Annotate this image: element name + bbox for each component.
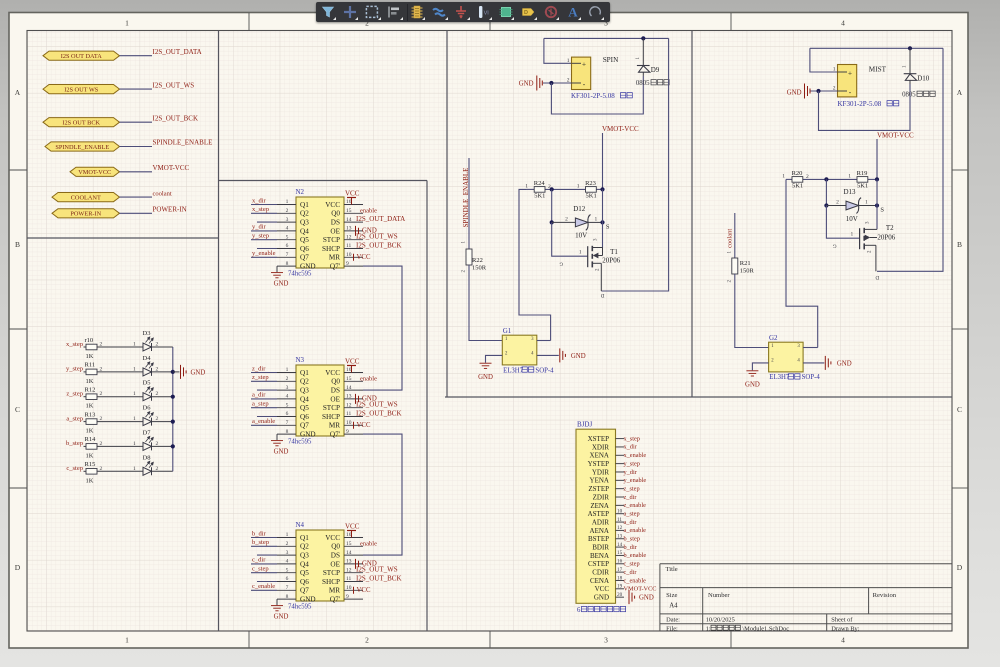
svg-text:2: 2 (836, 200, 839, 206)
svg-text:CSTEP: CSTEP (588, 560, 609, 568)
svg-text:SHCP: SHCP (322, 245, 340, 253)
svg-text:YSTEP: YSTEP (588, 460, 610, 468)
svg-text:R21: R21 (740, 260, 751, 267)
svg-text:EL3H7: EL3H7 (769, 374, 790, 381)
svg-text:1K: 1K (86, 452, 94, 459)
wire D7 to gnd bus (152, 445, 173, 447)
resistor R15 1K (84, 470, 87, 472)
svg-text:1: 1 (525, 183, 528, 189)
wire R15 to D8 (97, 470, 143, 472)
svg-text:1: 1 (865, 200, 868, 206)
svg-text:2: 2 (286, 376, 289, 382)
svg-text:A: A (15, 88, 21, 97)
svg-text:c_step: c_step (624, 561, 640, 568)
svg-text:D: D (15, 563, 21, 572)
wire y_enable to N2 (251, 256, 277, 258)
svg-text:VCC: VCC (325, 369, 340, 377)
svg-text:I2S_OUT_BCK: I2S_OUT_BCK (356, 410, 402, 418)
svg-text:15: 15 (346, 376, 352, 382)
port COOLANT (52, 193, 120, 202)
svg-text:D13: D13 (844, 188, 857, 196)
svg-text:SHCP: SHCP (322, 578, 340, 586)
svg-text:z_step: z_step (252, 374, 269, 381)
wire a_enable to N3 (251, 424, 277, 426)
svg-text:12: 12 (346, 234, 352, 240)
svg-text:MR: MR (329, 422, 340, 430)
svg-text:G: G (833, 243, 837, 248)
svg-text:74hc595: 74hc595 (288, 604, 312, 611)
svg-text:GND: GND (300, 263, 316, 271)
resistor r10 1K (84, 346, 87, 348)
svg-text:Q7: Q7 (300, 254, 309, 262)
svg-text:VCC: VCC (357, 254, 371, 261)
vertical divider x=692 (691, 31, 693, 398)
svg-text:16: 16 (346, 199, 352, 205)
svg-text:GND: GND (300, 596, 316, 604)
transistor T2 20P06 P-MOSFET (859, 228, 861, 249)
zone ticks bottom band (248, 631, 250, 648)
svg-text:GND: GND (745, 381, 760, 388)
svg-text:GND: GND (571, 353, 586, 360)
vertical divider x=447 (446, 31, 448, 398)
svg-text:Q3: Q3 (300, 387, 309, 395)
svg-text:VI: VI (483, 10, 489, 16)
svg-text:ZENA: ZENA (590, 502, 609, 510)
wire port I2S OUT WS (120, 88, 153, 90)
svg-text:I2S OUT DATA: I2S OUT DATA (61, 53, 102, 60)
wire stub N3 pin6 (257, 416, 277, 418)
svg-text:GND: GND (594, 594, 609, 602)
svg-text:x_step: x_step (624, 435, 640, 442)
wire G1 pin3 up (537, 340, 551, 342)
svg-text:9: 9 (346, 594, 349, 600)
horizontal divider y=397 (445, 396, 952, 398)
ground symbol N4 (271, 606, 283, 611)
junction at MIST pin2 (816, 89, 820, 93)
wire SPINDLE_ENABLE net (468, 158, 470, 249)
diode D10 0805 (909, 48, 911, 73)
svg-text:G2: G2 (769, 334, 778, 342)
svg-text:A: A (957, 88, 963, 97)
svg-text:S: S (606, 224, 610, 231)
optocoupler G1 EL3H7 (502, 335, 537, 365)
svg-text:B: B (15, 240, 20, 249)
port POWER-IN (52, 209, 120, 218)
svg-text:Drawn By:: Drawn By: (831, 625, 859, 632)
svg-text:r10: r10 (85, 337, 94, 344)
N2 left pins (277, 205, 296, 267)
svg-text:15: 15 (346, 208, 352, 214)
LED D4 (143, 368, 152, 376)
svg-text:1: 1 (286, 367, 289, 373)
svg-text:1: 1 (286, 532, 289, 538)
svg-text:11: 11 (346, 411, 352, 417)
svg-text:N3: N3 (296, 356, 305, 364)
svg-text:I2S_OUT_WS: I2S_OUT_WS (153, 81, 195, 89)
svg-text:DS: DS (331, 387, 340, 395)
svg-text:VCC: VCC (345, 358, 360, 366)
svg-text:+: + (582, 60, 586, 69)
svg-text:ZDIR: ZDIR (593, 493, 610, 501)
svg-text:y_step: y_step (624, 460, 640, 467)
svg-text:ZSTEP: ZSTEP (588, 485, 609, 493)
svg-text:BENA: BENA (590, 552, 609, 560)
svg-text:1: 1 (125, 636, 129, 645)
svg-text:OE: OE (330, 560, 340, 568)
ground symbol G1 (480, 363, 492, 368)
port SPINDLE_ENABLE (45, 142, 120, 151)
svg-text:Q6: Q6 (300, 578, 309, 586)
wire VMOT-VCC down to R19 (876, 139, 878, 179)
svg-text:a_enable: a_enable (252, 418, 275, 425)
wire port I2S OUT BCK (120, 121, 153, 123)
svg-text:10V: 10V (846, 215, 858, 223)
svg-text:GND: GND (478, 374, 493, 381)
svg-text:7: 7 (286, 420, 289, 426)
svg-text:Q1: Q1 (300, 201, 309, 209)
svg-text:VCC: VCC (357, 422, 371, 429)
svg-text:6: 6 (577, 607, 581, 614)
svg-text:b_step: b_step (252, 539, 269, 546)
svg-text:R11: R11 (85, 362, 96, 369)
svg-text:Q6: Q6 (300, 245, 309, 253)
svg-text:10V: 10V (575, 232, 587, 240)
svg-text:c_enable: c_enable (624, 577, 647, 584)
optocoupler G2 EL3H7 (769, 342, 804, 372)
svg-text:11: 11 (346, 576, 352, 582)
wire r10 to D3 (97, 346, 143, 348)
svg-text:CDIR: CDIR (592, 569, 609, 577)
svg-text:1: 1 (851, 232, 854, 238)
power GND at BJDJ pin20 (629, 590, 635, 604)
toolbar icon align (385, 3, 403, 21)
wire R24 left to G1 pin3 (519, 189, 551, 340)
svg-text:1K: 1K (86, 378, 94, 385)
svg-text:GND: GND (300, 431, 316, 439)
wire coolant net (734, 213, 736, 258)
svg-text:Number: Number (708, 592, 730, 599)
svg-text:I2S OUT WS: I2S OUT WS (64, 87, 99, 94)
svg-text:CENA: CENA (590, 577, 609, 585)
svg-text:I2S_OUT_DATA: I2S_OUT_DATA (153, 48, 202, 56)
svg-text:D8: D8 (143, 454, 151, 461)
svg-text:1: 1 (133, 416, 136, 422)
toolbar icon place ground (452, 3, 470, 21)
wire stub N2 pin6 (257, 248, 277, 250)
svg-text:D12: D12 (573, 205, 586, 213)
wire R24 rail (526, 188, 534, 190)
svg-text:74hc595: 74hc595 (288, 271, 312, 278)
svg-text:VCC: VCC (357, 587, 371, 594)
svg-text:GND: GND (274, 281, 289, 288)
wire G2 pin4 to gnd bar (803, 362, 824, 364)
svg-text:4: 4 (286, 226, 289, 232)
toolbar icon place IC sheet symbol (497, 3, 515, 21)
svg-text:VMOT-VCC: VMOT-VCC (153, 164, 190, 172)
svg-text:KF301-2P-5.08: KF301-2P-5.08 (838, 100, 882, 108)
svg-text:YENA: YENA (590, 477, 609, 485)
IC N2 74hc595 body (296, 197, 344, 268)
N4 left pins (277, 538, 296, 600)
svg-text:1K: 1K (86, 477, 94, 484)
svg-text:c_dir: c_dir (252, 557, 266, 564)
toolbar icon selection rectangle (363, 3, 381, 21)
svg-text:I2S_OUT_BCK: I2S_OUT_BCK (153, 114, 199, 122)
svg-text:3: 3 (286, 550, 289, 556)
svg-text:coolant: coolant (153, 190, 172, 197)
wire D5 to gnd bus (152, 396, 173, 398)
power VCC at N2 pin10 (353, 254, 355, 261)
svg-text:File:: File: (666, 625, 678, 632)
svg-text:COOLANT: COOLANT (71, 195, 101, 202)
wire right rail D10 to T2 drain (877, 48, 943, 271)
junction R19 right (875, 177, 879, 181)
svg-text:2: 2 (806, 174, 809, 180)
wire stub N2 pin3 (257, 221, 277, 223)
svg-text:1: 1 (579, 250, 582, 256)
wire GND to MIST pin2 (811, 90, 838, 92)
junction R23 right (600, 187, 604, 191)
svg-text:y_enable: y_enable (252, 250, 276, 257)
svg-text:MIST: MIST (869, 66, 887, 74)
svg-text:1: 1 (125, 19, 129, 28)
svg-text:y_step: y_step (252, 233, 269, 240)
svg-text:I2S_OUT_BCK: I2S_OUT_BCK (356, 575, 402, 583)
N4 gnd pin wire (276, 599, 278, 605)
svg-text:GND: GND (837, 361, 852, 368)
svg-text:G1: G1 (503, 327, 512, 335)
svg-text:D6: D6 (143, 405, 152, 412)
svg-text:4: 4 (841, 19, 845, 28)
svg-text:b_dir: b_dir (624, 544, 638, 551)
wire VMOT-VCC down to R23 (602, 133, 604, 189)
svg-text:I2S_OUT_WS: I2S_OUT_WS (356, 233, 398, 241)
svg-text:Q7': Q7' (330, 263, 340, 271)
svg-text:150R: 150R (472, 265, 487, 272)
title block lines (660, 564, 952, 631)
svg-text:AENA: AENA (590, 527, 609, 535)
svg-text:I2S_OUT_BCK: I2S_OUT_BCK (356, 242, 402, 250)
toolbar icon probe (542, 3, 560, 21)
power GND at N3 pin13 (356, 394, 359, 404)
svg-text:SPINDLE_ENABLE: SPINDLE_ENABLE (55, 144, 109, 151)
wire T1 gate from D12 anode (552, 222, 588, 256)
svg-text:b_dir: b_dir (252, 530, 267, 537)
power GND at G2 pin4 (825, 356, 831, 370)
svg-text:D5: D5 (143, 380, 151, 387)
svg-text:8: 8 (286, 261, 289, 267)
port VMOT-VCC (70, 167, 120, 176)
svg-text:Q4: Q4 (300, 560, 309, 568)
svg-text:D4: D4 (143, 355, 152, 362)
wire MIST loop bottom (819, 84, 911, 130)
N4 right pins (344, 538, 363, 600)
svg-text:GND: GND (519, 80, 534, 87)
svg-text:MR: MR (329, 254, 340, 262)
svg-text:11: 11 (346, 243, 352, 249)
svg-text:0805: 0805 (902, 92, 916, 99)
svg-text:Q2: Q2 (300, 210, 309, 218)
svg-text:1: 1 (567, 58, 570, 64)
svg-text:1: 1 (133, 466, 136, 472)
wire stub N3 pin3 (257, 389, 277, 391)
power GND at G1 pin4 (560, 348, 566, 362)
svg-text:b_enable: b_enable (624, 552, 647, 559)
svg-text:20: 20 (617, 592, 623, 598)
wire R11 to D4 (97, 371, 143, 373)
power GND at N4 pin13 (356, 559, 359, 569)
svg-text:GND: GND (274, 449, 289, 456)
svg-text:ASTEP: ASTEP (588, 510, 610, 518)
LED D7 (143, 442, 152, 450)
svg-text:12: 12 (346, 402, 352, 408)
svg-text:B: B (957, 240, 962, 249)
toolbar icon crosshair (341, 3, 359, 21)
svg-text:1: 1 (133, 366, 136, 372)
svg-text:74hc595: 74hc595 (288, 439, 312, 446)
svg-text:150R: 150R (740, 268, 755, 275)
wire port POWER-IN (120, 212, 153, 214)
svg-text:8: 8 (286, 429, 289, 435)
svg-text:SPIN: SPIN (603, 56, 619, 64)
wire D6 to gnd bus (152, 421, 173, 423)
svg-text:BSTEP: BSTEP (588, 535, 609, 543)
wire b_dir to N4 (251, 537, 277, 539)
wire R14 to D7 (97, 445, 143, 447)
svg-text:14: 14 (346, 550, 352, 556)
svg-text:D: D (601, 292, 605, 298)
svg-text:19: 19 (617, 584, 623, 590)
wire SPIN loop bottom (551, 76, 643, 114)
svg-text:14: 14 (617, 542, 623, 548)
junction at SPIN pin2 (549, 81, 553, 85)
junction dots gnd bus (171, 370, 175, 374)
svg-text:3: 3 (286, 385, 289, 391)
IC N4 74hc595 body (296, 530, 344, 601)
svg-text:16: 16 (346, 532, 352, 538)
zener diode D12 10V (575, 218, 588, 227)
port I2S OUT DATA (43, 51, 120, 60)
svg-text:1: 1 (848, 173, 851, 179)
connector BJDJ body (576, 429, 616, 603)
svg-text:13: 13 (346, 226, 352, 232)
ground symbol G2 (746, 371, 758, 376)
power VCC at N4 pin10 (353, 587, 355, 594)
svg-text:6: 6 (286, 243, 289, 249)
shift-register block border (219, 181, 428, 632)
power VCC at N2 pin16 (351, 198, 353, 205)
resistor R12 1K (84, 396, 87, 398)
LED D6 (143, 418, 152, 426)
wire GND to SPIN pin2 (543, 82, 572, 84)
junction S node (600, 220, 604, 224)
svg-text:A4: A4 (669, 603, 678, 610)
svg-text:SHCP: SHCP (322, 413, 340, 421)
svg-text:STCP: STCP (323, 569, 340, 577)
svg-text:7: 7 (286, 252, 289, 258)
svg-text:D7: D7 (143, 429, 152, 436)
wire stub N4 pin3 (257, 554, 277, 556)
svg-text:\Module1.SchDoc: \Module1.SchDoc (742, 625, 789, 632)
resistor R14 1K (84, 445, 87, 447)
connector MIST KF301-2P (838, 65, 857, 97)
svg-text:Sheet of: Sheet of (831, 617, 853, 624)
port I2S OUT WS (43, 85, 120, 94)
svg-text:YDIR: YDIR (592, 468, 609, 476)
svg-text:x_step: x_step (66, 341, 83, 348)
svg-text:1: 1 (833, 67, 836, 73)
svg-text:14: 14 (346, 217, 352, 223)
wire VMOT-VCC top rail MIST (810, 47, 943, 49)
wire MIST pin1 to rail (810, 48, 838, 72)
svg-text:y_step: y_step (66, 366, 83, 373)
svg-text:Q7': Q7' (330, 596, 340, 604)
wire b_step to N4 (251, 545, 277, 547)
svg-text:a_step: a_step (66, 415, 83, 422)
wire right rail D9 to T1 drain (601, 38, 668, 291)
port I2S OUT BCK (43, 118, 120, 127)
toolbar icon filter funnel (319, 3, 337, 21)
resistor R13 1K (84, 421, 87, 423)
svg-text:1: 1 (133, 342, 136, 348)
svg-text:z_dir: z_dir (252, 365, 266, 372)
resistor R22 150R (466, 249, 472, 265)
svg-text:3: 3 (286, 217, 289, 223)
svg-text:x_dir: x_dir (624, 444, 638, 451)
svg-text:10: 10 (346, 420, 352, 426)
power VCC at N3 pin10 (353, 422, 355, 429)
junction R20-R19 (824, 177, 828, 181)
svg-text:z_enable: z_enable (624, 502, 647, 509)
svg-text:Q4: Q4 (300, 227, 309, 235)
svg-text:b_step: b_step (624, 536, 640, 543)
LED D5 (143, 393, 152, 401)
svg-text:XDIR: XDIR (592, 443, 609, 451)
wire zener branch MIST (825, 179, 827, 205)
svg-text:Q2: Q2 (300, 543, 309, 551)
svg-text:1: 1 (133, 441, 136, 447)
resistor R20 5K1 (792, 177, 803, 183)
svg-text:EL3H7: EL3H7 (503, 367, 524, 374)
svg-text:9: 9 (346, 261, 349, 267)
connector SPIN KF301-2P (572, 57, 591, 89)
wire G1 pin2 to ground (486, 355, 503, 362)
svg-text:4: 4 (286, 559, 289, 565)
svg-text:KF301-2P-5.08: KF301-2P-5.08 (571, 92, 615, 100)
svg-text:DS: DS (331, 219, 340, 227)
svg-text:Q0: Q0 (331, 543, 340, 551)
svg-text:OE: OE (330, 395, 340, 403)
svg-text:enable: enable (360, 540, 377, 547)
svg-text:OE: OE (330, 227, 340, 235)
resistor R21 150R (732, 258, 738, 274)
wire port I2S OUT DATA (120, 55, 153, 57)
svg-text:16: 16 (346, 367, 352, 373)
svg-text:6: 6 (286, 411, 289, 417)
wire zener branch (551, 189, 553, 222)
svg-text:POWER-IN: POWER-IN (153, 206, 187, 214)
svg-text:y_dir: y_dir (624, 469, 638, 476)
svg-text:coolant: coolant (727, 229, 734, 248)
toolbar icon place port (519, 3, 537, 21)
svg-text:x_step: x_step (252, 206, 269, 213)
svg-text:z_dir: z_dir (624, 494, 638, 501)
wire G2 pin2 to ground (752, 363, 768, 370)
svg-text:6: 6 (286, 576, 289, 582)
junction S node MIST (875, 203, 879, 207)
svg-text:Q5: Q5 (300, 404, 309, 412)
svg-text:1K: 1K (86, 403, 94, 410)
